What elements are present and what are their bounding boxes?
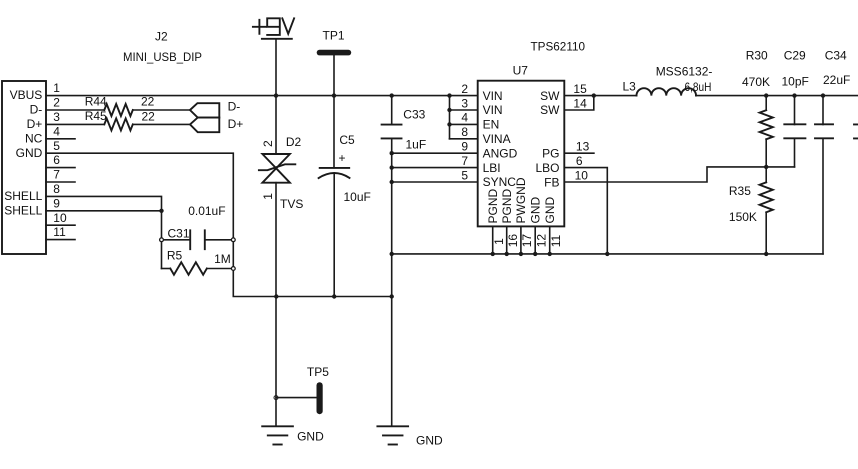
svg-text:TP1: TP1 — [323, 29, 345, 43]
svg-text:GND: GND — [16, 146, 43, 160]
J2 pin 7 stub — [46, 181, 75, 183]
wire +9V to VBUS rail — [275, 39, 277, 96]
junction dot C31 left — [160, 238, 164, 242]
svg-text:D2: D2 — [286, 135, 302, 149]
svg-text:SW: SW — [540, 103, 560, 117]
capacitor C5 top lead — [333, 96, 335, 168]
capacitor C29 plates — [784, 124, 805, 138]
svg-text:SHELL: SHELL — [4, 189, 42, 203]
svg-text:7: 7 — [53, 168, 60, 182]
resistor R30 bottom lead — [765, 139, 767, 167]
svg-text:SYNC: SYNC — [483, 175, 517, 189]
svg-text:GND: GND — [416, 434, 443, 448]
svg-text:TPS62110: TPS62110 — [531, 39, 586, 53]
svg-text:D-: D- — [30, 103, 43, 117]
edge capacitor plates (cut off at right edge) — [854, 124, 858, 138]
svg-text:SW: SW — [540, 89, 560, 103]
wire D2 cathode down to ground — [275, 183, 277, 426]
svg-text:C33: C33 — [403, 107, 425, 121]
svg-text:PWGND: PWGND — [514, 177, 528, 223]
junction dot ground net C33 — [390, 294, 394, 298]
capacitor C33 top lead — [391, 96, 393, 125]
U7 bottom pin 12 stub — [534, 226, 536, 254]
svg-text:GND: GND — [297, 430, 324, 444]
svg-text:2: 2 — [461, 82, 468, 96]
resistor R35 — [760, 182, 773, 212]
capacitor C33 bottom lead / ground net vertical — [391, 138, 393, 425]
port symbol D+ — [190, 118, 219, 133]
svg-text:13: 13 — [576, 140, 590, 154]
svg-text:C5: C5 — [339, 133, 355, 147]
resistor R44 — [104, 104, 132, 116]
svg-text:470K: 470K — [742, 75, 770, 89]
C5 bottom lead — [333, 174, 335, 297]
svg-text:TP5: TP5 — [307, 365, 329, 379]
svg-text:5: 5 — [53, 139, 60, 153]
J2 pin 6 stub — [46, 167, 75, 169]
junction dot VBUS/+9V — [274, 93, 278, 97]
diode D2 wire from rail — [275, 96, 277, 154]
svg-text:J2: J2 — [155, 30, 168, 44]
svg-text:10uF: 10uF — [344, 190, 371, 204]
junction dot R30 top — [764, 93, 768, 97]
C5 top plate — [320, 167, 350, 169]
svg-text:R5: R5 — [167, 249, 183, 263]
wire D+ lead (J2 pin3 to R45) — [46, 123, 104, 125]
svg-text:1: 1 — [261, 193, 275, 200]
inductor L3 — [637, 88, 697, 95]
svg-text:LBI: LBI — [483, 161, 501, 175]
U7 bottom pin 1 stub — [492, 226, 494, 254]
wire TP1 to rail — [333, 55, 335, 95]
svg-text:LBO: LBO — [535, 161, 559, 175]
junction dot pin4 — [447, 122, 451, 126]
junction dot ANGD — [390, 151, 394, 155]
resistor R30 top lead — [765, 96, 767, 111]
port symbol D- — [190, 103, 219, 117]
svg-text:VINA: VINA — [483, 132, 511, 146]
U7 bottom pin 16 stub — [506, 226, 508, 254]
svg-text:TVS: TVS — [280, 197, 303, 211]
svg-text:22: 22 — [142, 110, 156, 124]
J2 pin 4 stub — [46, 138, 75, 140]
junction dot pin3 — [447, 108, 451, 112]
svg-text:5: 5 — [461, 168, 468, 182]
resistor R5 left lead — [162, 268, 171, 270]
wire SW pin14 — [564, 96, 594, 110]
capacitor C34 bottom lead — [822, 139, 824, 254]
svg-text:C31: C31 — [168, 227, 190, 241]
capacitor C31 right lead — [205, 239, 234, 241]
svg-text:GND: GND — [543, 197, 557, 224]
svg-text:7: 7 — [461, 154, 468, 168]
svg-text:8: 8 — [461, 125, 468, 139]
junction dot U7 pin12 — [533, 252, 537, 256]
ground symbol (right) — [377, 426, 408, 444]
wire SYNC pin5 — [392, 181, 478, 183]
svg-text:D+: D+ — [228, 117, 244, 131]
TP5 junction circle — [274, 396, 278, 400]
junction dot LBO ground — [605, 252, 609, 256]
wire GND pin5 of J2 to ground net — [46, 153, 392, 296]
svg-text:PGND: PGND — [500, 188, 514, 223]
test point TP1 pad — [317, 50, 352, 56]
capacitor C33 plates — [382, 125, 402, 139]
svg-text:22: 22 — [141, 94, 155, 108]
svg-text:10: 10 — [575, 168, 589, 182]
diode D2 (TVS) symbol — [259, 154, 295, 183]
svg-text:6: 6 — [53, 153, 60, 167]
svg-text:SHELL: SHELL — [4, 203, 42, 217]
svg-text:0.01uF: 0.01uF — [188, 204, 225, 218]
svg-text:14: 14 — [573, 96, 587, 110]
svg-text:R30: R30 — [746, 49, 768, 63]
J2 pin 11 stub — [46, 239, 75, 241]
junction dot ground net C5 — [332, 294, 336, 298]
wire ANGD pin9 — [392, 152, 478, 154]
junction dot U7 pin16 — [505, 252, 509, 256]
wire pin8 stub — [450, 138, 478, 140]
resistor R35 top lead — [765, 167, 767, 182]
wire R45 to D+ port — [133, 123, 190, 125]
svg-text:11: 11 — [53, 225, 66, 239]
svg-text:11: 11 — [549, 235, 563, 248]
junction dot FB divider — [764, 165, 768, 169]
junction dot SW — [592, 93, 596, 97]
svg-text:10pF: 10pF — [782, 75, 809, 89]
U7 bottom pin 17 stub — [520, 226, 522, 254]
svg-text:EN: EN — [483, 118, 500, 132]
resistor R45 — [104, 118, 132, 130]
svg-text:R35: R35 — [729, 184, 751, 198]
svg-text:1M: 1M — [214, 252, 231, 266]
junction dot VIN tie — [447, 93, 451, 97]
wire FB pin10 to divider — [564, 167, 794, 182]
svg-text:6,8uH: 6,8uH — [685, 80, 712, 94]
junction dot U7 pin1 — [491, 252, 495, 256]
svg-text:2: 2 — [261, 140, 275, 147]
junction dot C29 top — [792, 93, 796, 97]
junction dot LBI — [390, 165, 394, 169]
svg-text:+: + — [339, 151, 346, 165]
power symbol +9V — [253, 18, 294, 39]
junction dot ground net D2 — [274, 294, 278, 298]
svg-text:R44: R44 — [85, 95, 107, 109]
ground symbol (left) — [262, 426, 293, 444]
wire PG pin13 stub — [564, 152, 594, 154]
svg-text:17: 17 — [520, 234, 534, 248]
C5 curved plate — [319, 173, 350, 178]
svg-text:MINI_USB_DIP: MINI_USB_DIP — [123, 50, 202, 64]
svg-text:9: 9 — [53, 196, 60, 210]
svg-text:D-: D- — [228, 100, 241, 114]
op-amp U7 body (TPS62110) — [478, 81, 565, 227]
svg-text:GND: GND — [529, 197, 543, 224]
svg-text:1: 1 — [53, 81, 60, 95]
wire L3 to output rail — [696, 95, 858, 97]
svg-text:R45: R45 — [85, 109, 107, 123]
svg-text:VIN: VIN — [483, 103, 503, 117]
resistor R30 — [760, 110, 773, 139]
junction dot SYNC — [390, 180, 394, 184]
svg-text:8: 8 — [53, 182, 60, 196]
junction dot C33 top — [390, 93, 394, 97]
connector J2 body — [2, 81, 46, 254]
svg-text:1uF: 1uF — [406, 138, 427, 152]
svg-text:MSS6132-: MSS6132- — [656, 65, 713, 79]
resistor R35 bottom lead — [765, 212, 767, 254]
svg-text:9: 9 — [461, 140, 468, 154]
svg-text:3: 3 — [461, 96, 468, 110]
svg-text:2: 2 — [53, 96, 60, 110]
svg-text:1: 1 — [492, 238, 506, 245]
svg-text:PG: PG — [542, 147, 559, 161]
wire LBI pin7 — [392, 167, 478, 169]
wire to TP5 — [276, 397, 317, 399]
capacitor C31 plates — [190, 230, 205, 249]
svg-text:FB: FB — [544, 175, 559, 189]
wire VBUS rail (J2 pin1 to U7 VIN pin2) — [46, 95, 478, 97]
svg-text:U7: U7 — [513, 63, 529, 77]
junction dot R35 bottom — [764, 252, 768, 256]
wire SHELL pin8 — [46, 196, 162, 268]
svg-text:4: 4 — [461, 111, 468, 125]
junction dot U7 pin11 — [548, 252, 552, 256]
svg-text:15: 15 — [573, 82, 587, 96]
junction dot TP1/C5 — [332, 93, 336, 97]
svg-text:VBUS: VBUS — [10, 88, 43, 102]
svg-text:D+: D+ — [27, 117, 43, 131]
svg-text:VIN: VIN — [483, 89, 503, 103]
capacitor C31 left lead — [162, 239, 191, 241]
junction dot R5 right — [231, 267, 235, 271]
junction dot U7 pin17 — [519, 252, 523, 256]
junction dot C34 top — [821, 93, 825, 97]
junction dot SHELL pin9 — [159, 209, 163, 213]
svg-text:ANGD: ANGD — [483, 146, 518, 160]
svg-text:12: 12 — [535, 234, 549, 248]
J2 pin 10 stub — [46, 224, 75, 226]
test point TP5 pad — [317, 382, 323, 414]
svg-text:3: 3 — [53, 110, 60, 124]
capacitor C34 plates — [815, 124, 833, 138]
wire SHELL pin9 — [46, 210, 162, 212]
svg-text:NC: NC — [25, 131, 43, 145]
capacitor C29 top lead — [794, 96, 796, 125]
svg-text:6: 6 — [576, 154, 583, 168]
wire pin3 stub — [450, 109, 478, 111]
svg-text:10: 10 — [53, 211, 67, 225]
svg-text:PGND: PGND — [486, 188, 500, 223]
wire R44 to D- port — [133, 109, 190, 111]
wire SW pin15 to L3 — [564, 95, 636, 97]
resistor R5 — [170, 262, 207, 274]
resistor R5 right lead — [207, 268, 234, 270]
wire LBO pin6 to ground rail — [564, 168, 607, 254]
capacitor C34 top lead — [822, 96, 824, 125]
svg-text:16: 16 — [506, 234, 520, 248]
wire pin4 stub — [450, 123, 478, 125]
svg-text:22uF: 22uF — [823, 73, 850, 87]
wire D- lead (J2 pin2 to R44) — [46, 109, 104, 111]
svg-text:150K: 150K — [729, 210, 757, 224]
svg-text:L3: L3 — [623, 80, 637, 94]
U7 bottom pin 11 stub — [549, 226, 551, 254]
ground rail — [392, 253, 823, 255]
junction dot C31 right — [231, 238, 235, 242]
capacitor C29 bottom lead — [794, 139, 796, 167]
junction dot ground rail left — [390, 252, 394, 256]
wire VIN/EN/VINA tie (pins 3,4,8) — [449, 96, 451, 139]
svg-text:C29: C29 — [784, 48, 806, 62]
svg-text:C34: C34 — [825, 48, 847, 62]
svg-text:4: 4 — [53, 124, 60, 138]
